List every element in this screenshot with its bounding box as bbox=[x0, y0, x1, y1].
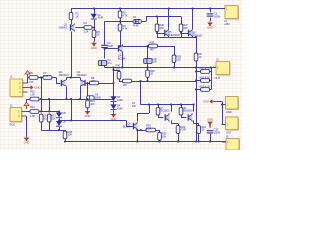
wire lower input bbox=[27, 99, 31, 101]
resistor R6 bbox=[29, 76, 38, 80]
wire bbox=[181, 17, 183, 25]
svg-text:GND: GND bbox=[85, 114, 91, 118]
junction bbox=[119, 8, 121, 10]
junction bbox=[140, 129, 142, 131]
svg-text:2SC5200: 2SC5200 bbox=[160, 109, 170, 113]
wire Q9 emitter bbox=[137, 130, 139, 142]
junction bbox=[64, 141, 66, 143]
wire bbox=[196, 89, 201, 91]
connector J2 input bbox=[10, 108, 22, 122]
junction bbox=[58, 129, 60, 131]
wire J2 pin1 bbox=[27, 111, 31, 113]
wire bbox=[94, 38, 96, 42]
wire bbox=[171, 105, 173, 112]
wire node B bbox=[105, 21, 134, 23]
junction bbox=[70, 120, 72, 122]
junction bbox=[136, 141, 138, 143]
wire bbox=[147, 68, 149, 71]
svg-text:OUT: OUT bbox=[226, 130, 232, 134]
junction bbox=[198, 141, 200, 143]
wire bbox=[49, 122, 51, 130]
junction bbox=[79, 98, 81, 100]
wire bbox=[104, 22, 106, 45]
wire bbox=[66, 78, 68, 81]
junction bbox=[66, 98, 68, 100]
junction bbox=[70, 98, 72, 100]
wire Q1 base bbox=[76, 27, 85, 29]
resistor R21 bbox=[156, 108, 160, 115]
junction bbox=[87, 82, 89, 84]
junction bbox=[173, 67, 175, 69]
svg-text:10K: 10K bbox=[123, 83, 128, 87]
svg-text:R29: R29 bbox=[150, 40, 155, 44]
junction bbox=[119, 45, 121, 47]
wire bbox=[210, 18, 212, 21]
diode D4 bbox=[110, 104, 116, 109]
junction bbox=[156, 16, 158, 18]
junction bbox=[58, 120, 60, 122]
resistor R28 bbox=[146, 70, 150, 77]
junction bbox=[70, 77, 72, 79]
diode D3 bbox=[110, 96, 116, 101]
junction bbox=[192, 8, 194, 10]
junction bbox=[40, 98, 42, 100]
svg-text:2.2K: 2.2K bbox=[84, 30, 89, 34]
transistor Q1 bbox=[0, 0, 1, 1]
wire bbox=[120, 9, 122, 12]
wire bbox=[222, 102, 224, 125]
wire inverting input drop bbox=[87, 83, 89, 100]
svg-text:1.0K: 1.0K bbox=[29, 80, 34, 84]
resistor R8 bbox=[90, 81, 99, 85]
wire bbox=[192, 35, 194, 38]
wire Q2 base bbox=[56, 83, 60, 85]
wire bbox=[156, 130, 160, 132]
resistor R31 bbox=[123, 79, 132, 83]
capacitor C10 bbox=[207, 130, 214, 132]
junction bbox=[221, 104, 223, 106]
svg-text:2SF9014: 2SF9014 bbox=[59, 73, 70, 77]
wire Q2 collector drop bbox=[66, 86, 68, 99]
svg-text:RCA: RCA bbox=[10, 122, 16, 126]
svg-text:4148: 4148 bbox=[133, 24, 139, 28]
power port VP1 bbox=[27, 73, 29, 78]
svg-text:47u: 47u bbox=[107, 61, 112, 65]
junction bbox=[140, 80, 142, 82]
svg-text:0.5R: 0.5R bbox=[181, 128, 186, 132]
wire bbox=[104, 65, 106, 67]
wire bbox=[94, 20, 96, 30]
wire bbox=[71, 9, 73, 13]
capacitor C3 bbox=[101, 44, 108, 46]
connector J3 OUT bbox=[216, 62, 230, 75]
junction bbox=[113, 82, 115, 84]
svg-text:100: 100 bbox=[132, 104, 137, 108]
wire bbox=[194, 123, 199, 125]
wire feedback run bbox=[99, 83, 114, 85]
svg-text:10K: 10K bbox=[162, 134, 167, 138]
ground GND5 bbox=[212, 101, 218, 103]
svg-text:1.0K: 1.0K bbox=[30, 114, 35, 118]
wire Q6 collector bbox=[192, 9, 194, 29]
transistor Q9 bbox=[134, 123, 138, 128]
resistor R17 bbox=[47, 114, 51, 122]
wire bbox=[119, 81, 123, 83]
wire bbox=[171, 123, 178, 125]
svg-text:2SF9014: 2SF9014 bbox=[77, 73, 88, 77]
junction bbox=[40, 77, 42, 79]
resistor R18 bbox=[63, 131, 67, 139]
wire bbox=[222, 104, 226, 106]
svg-text:22K: 22K bbox=[91, 79, 96, 83]
wire output base rail bbox=[141, 104, 194, 106]
transistor Q6 bbox=[189, 30, 193, 35]
wire bbox=[181, 32, 183, 38]
resistor R19 bbox=[146, 128, 156, 132]
wire bbox=[157, 17, 159, 25]
wire bbox=[71, 99, 73, 121]
junction bbox=[180, 104, 182, 106]
transistor Q2 bbox=[62, 80, 66, 85]
wire bbox=[181, 115, 183, 118]
svg-text:GND: GND bbox=[91, 46, 97, 50]
junction bbox=[119, 21, 121, 23]
resistor R27 bbox=[179, 24, 183, 32]
transistor Q1 symbol bbox=[71, 25, 75, 30]
svg-text:100: 100 bbox=[153, 60, 158, 64]
resistor R4 bbox=[84, 26, 92, 30]
wire Q3 collector drop bbox=[80, 86, 82, 99]
svg-text:4148: 4148 bbox=[98, 16, 104, 20]
junction bbox=[147, 80, 149, 82]
diode D1 bbox=[91, 14, 97, 19]
wire bottom -V rail bbox=[65, 141, 226, 143]
wire bbox=[149, 105, 151, 114]
wire bbox=[159, 130, 161, 133]
junction bbox=[113, 69, 115, 71]
capacitor C4 bbox=[98, 61, 106, 66]
wire bbox=[210, 71, 212, 73]
resistor R5 bbox=[92, 30, 96, 38]
ground GND3 bbox=[209, 126, 211, 128]
wire J1 pin1 up bbox=[27, 78, 29, 84]
svg-text:0.5R: 0.5R bbox=[146, 127, 151, 131]
transistor Q3 bbox=[80, 80, 84, 85]
wire bbox=[210, 9, 212, 13]
junction bbox=[157, 104, 159, 106]
svg-text:2N5401: 2N5401 bbox=[58, 25, 67, 29]
svg-text:GND: GND bbox=[203, 100, 209, 104]
svg-text:100N: 100N bbox=[95, 95, 101, 99]
svg-text:100: 100 bbox=[116, 66, 121, 70]
ground GND2 bbox=[87, 109, 89, 111]
wire bbox=[196, 37, 198, 53]
resistor R9 bbox=[194, 53, 198, 61]
wire mid node rail bbox=[105, 67, 197, 69]
wire bbox=[158, 105, 160, 108]
svg-text:1K0: 1K0 bbox=[90, 102, 95, 106]
wire Q3 base to R8 bbox=[86, 83, 90, 85]
transistor Q4 bbox=[119, 46, 123, 51]
wire driver base rail bbox=[146, 16, 181, 18]
wire bbox=[210, 89, 212, 91]
wire Q7 base bbox=[158, 117, 163, 119]
svg-text:R11 4.7K: R11 4.7K bbox=[200, 76, 211, 80]
ground GND8 bbox=[113, 112, 115, 114]
wire bias node rail bbox=[59, 120, 126, 122]
wire Q1 collector to diff pair tail bbox=[71, 31, 73, 77]
connector J1 input bbox=[10, 79, 23, 97]
junction bbox=[195, 80, 197, 82]
resistor R15 bbox=[30, 97, 39, 101]
wire bbox=[94, 99, 113, 101]
junction bbox=[40, 111, 42, 113]
junction bbox=[209, 8, 211, 10]
wire Q9 base bbox=[126, 126, 133, 128]
junction bbox=[147, 45, 149, 47]
wire bbox=[210, 80, 212, 82]
wire bbox=[94, 9, 96, 14]
wire emitter tee bbox=[67, 77, 81, 79]
wire bbox=[119, 70, 121, 72]
svg-text:GND: GND bbox=[24, 141, 30, 145]
wire bbox=[196, 71, 201, 73]
resistor R23 bbox=[176, 126, 180, 134]
wire bias rail bbox=[132, 81, 197, 83]
wire bbox=[26, 99, 28, 102]
svg-text:4148: 4148 bbox=[117, 106, 123, 110]
wire Q4 base bbox=[105, 48, 118, 50]
connector J5 -V bbox=[226, 139, 239, 151]
svg-text:4.7K: 4.7K bbox=[123, 27, 128, 31]
junction bbox=[87, 98, 89, 100]
wire bbox=[59, 127, 61, 130]
wire bottom input rail bbox=[39, 111, 60, 113]
wire bbox=[39, 99, 49, 101]
junction bbox=[93, 8, 95, 10]
junction bbox=[195, 67, 197, 69]
svg-text:1.0K: 1.0K bbox=[30, 93, 35, 97]
junction bbox=[93, 27, 95, 29]
junction bbox=[209, 141, 211, 143]
wire bbox=[65, 130, 67, 131]
wire bbox=[59, 112, 61, 113]
connector J4 VCC bbox=[225, 6, 238, 19]
resistor R3 bbox=[118, 24, 122, 31]
resistor R25 bbox=[172, 55, 176, 63]
wire bbox=[181, 105, 183, 108]
svg-text:R14: R14 bbox=[30, 105, 35, 109]
wire bbox=[114, 70, 120, 72]
resistor R11 bbox=[201, 79, 210, 83]
wire bias diode top bbox=[113, 68, 115, 98]
svg-text:GND: GND bbox=[207, 118, 213, 122]
resistor R30 bbox=[117, 72, 121, 80]
wire bbox=[147, 46, 149, 58]
svg-text:2SD5200: 2SD5200 bbox=[183, 109, 193, 113]
wire Q5 collector bbox=[168, 9, 170, 29]
svg-text:BC546: BC546 bbox=[123, 124, 131, 128]
svg-text:BC546: BC546 bbox=[118, 56, 126, 60]
svg-text:100P: 100P bbox=[107, 44, 113, 48]
wire bbox=[122, 44, 124, 47]
wire lower rail bbox=[49, 99, 87, 101]
svg-text:1K: 1K bbox=[97, 33, 100, 37]
wire bbox=[174, 46, 176, 55]
resistor R2 bbox=[118, 11, 122, 18]
wire bbox=[120, 18, 122, 24]
wire divider vertical bbox=[41, 78, 43, 112]
wire J2 pin2 to gnd bbox=[26, 116, 28, 136]
ground GND1 bbox=[93, 41, 95, 43]
wire bbox=[65, 139, 67, 142]
wire bbox=[92, 27, 94, 29]
junction bbox=[48, 111, 50, 113]
wire bbox=[146, 17, 148, 22]
wire R3 to Q4 collector bbox=[120, 31, 122, 46]
wire bbox=[28, 77, 30, 79]
svg-text:4148: 4148 bbox=[117, 98, 123, 102]
svg-text:4.7K: 4.7K bbox=[123, 14, 128, 18]
svg-text:GND: GND bbox=[226, 110, 232, 114]
svg-text:100: 100 bbox=[159, 26, 164, 30]
wire bbox=[198, 133, 200, 141]
wire bbox=[41, 112, 43, 115]
wire bbox=[171, 120, 173, 123]
wire bbox=[41, 130, 65, 132]
junction bbox=[177, 141, 179, 143]
wire bbox=[198, 124, 200, 126]
wire bbox=[178, 124, 180, 126]
junction bbox=[104, 48, 106, 50]
resistor R29 bbox=[149, 44, 158, 48]
diode D6 bbox=[56, 121, 62, 126]
svg-text:22K: 22K bbox=[51, 116, 56, 120]
junction bbox=[147, 67, 149, 69]
junction bbox=[136, 129, 138, 131]
resistor R12 bbox=[201, 88, 210, 92]
transistor Q8 bbox=[189, 115, 193, 120]
junction bbox=[113, 67, 115, 69]
svg-text:1K: 1K bbox=[150, 72, 153, 76]
wire bbox=[49, 112, 51, 115]
svg-text:R12 4.7K: R12 4.7K bbox=[200, 85, 211, 89]
junction bbox=[180, 32, 182, 34]
capacitor C11 bbox=[144, 59, 152, 64]
wire bbox=[113, 110, 115, 112]
junction bbox=[170, 104, 172, 106]
wire bbox=[104, 48, 106, 58]
wire bbox=[211, 68, 213, 90]
wire bbox=[196, 83, 198, 85]
wire bbox=[41, 122, 43, 130]
diode D5 bbox=[56, 113, 62, 118]
junction bbox=[195, 89, 197, 91]
svg-text:+35V: +35V bbox=[224, 22, 230, 26]
wire Q4 emitter bbox=[122, 52, 124, 67]
resistor R1 body bbox=[69, 12, 73, 19]
power port VP2 bbox=[26, 105, 28, 110]
wire output rail vertical bbox=[196, 61, 198, 142]
wire driver emitter rail bbox=[157, 37, 196, 39]
junction bbox=[159, 141, 161, 143]
junction bbox=[48, 98, 50, 100]
wire Q9 collector bbox=[137, 113, 139, 121]
junction bbox=[156, 32, 158, 34]
wire bbox=[222, 124, 226, 126]
transistor Q5 bbox=[165, 30, 169, 35]
wire top +V rail bbox=[71, 8, 225, 10]
svg-text:2SD5200: 2SD5200 bbox=[192, 34, 203, 38]
wire Q8 base bbox=[181, 117, 186, 119]
wire bbox=[193, 105, 195, 112]
svg-text:R10 4.7K: R10 4.7K bbox=[200, 67, 211, 71]
resistor R7 bbox=[43, 76, 52, 80]
wire bbox=[140, 81, 142, 105]
ground GND6 bbox=[26, 87, 32, 89]
wire bbox=[80, 78, 82, 81]
wire bbox=[217, 101, 222, 103]
wire bbox=[71, 19, 73, 24]
ground GND7 bbox=[26, 136, 28, 138]
svg-text:4K7: 4K7 bbox=[150, 48, 155, 52]
junction bbox=[121, 67, 123, 69]
junction bbox=[58, 111, 60, 113]
wire bbox=[119, 79, 121, 81]
junction bbox=[148, 104, 150, 106]
svg-text:1.0K: 1.0K bbox=[44, 74, 49, 78]
wire bbox=[113, 102, 115, 105]
junction bbox=[195, 141, 197, 143]
wire bbox=[126, 121, 128, 127]
resistor R14 bbox=[30, 110, 39, 114]
wire bbox=[159, 140, 161, 141]
diode D2 bbox=[133, 20, 141, 24]
junction bbox=[195, 36, 197, 38]
connector J6 bbox=[226, 97, 239, 110]
svg-text:GND: GND bbox=[207, 26, 213, 30]
wire divider tap bbox=[38, 77, 43, 79]
capacitor C1 bbox=[207, 13, 214, 15]
resistor R22 bbox=[179, 108, 183, 115]
svg-text:100: 100 bbox=[183, 26, 188, 30]
capacitor C8 bbox=[87, 96, 95, 100]
svg-text:10K: 10K bbox=[68, 133, 73, 137]
svg-text:GND: GND bbox=[35, 86, 41, 90]
wire Q5 base bbox=[157, 33, 165, 35]
junction bbox=[210, 67, 212, 69]
wire bbox=[178, 133, 180, 141]
svg-text:OUT: OUT bbox=[215, 76, 221, 80]
wire bbox=[158, 115, 160, 118]
wire bbox=[56, 78, 58, 84]
wire bbox=[147, 63, 149, 67]
junction bbox=[195, 71, 197, 73]
wire bbox=[168, 35, 170, 38]
svg-text:MJE15030: MJE15030 bbox=[168, 33, 180, 37]
junction bbox=[113, 98, 115, 100]
wire bbox=[210, 134, 212, 142]
wire bbox=[147, 77, 149, 81]
resistor R20 bbox=[158, 133, 162, 141]
resistor R24 bbox=[197, 126, 201, 134]
wire to output connector bbox=[196, 67, 216, 69]
wire bbox=[87, 108, 89, 110]
resistor R13 bbox=[86, 100, 90, 108]
svg-text:100N: 100N bbox=[214, 130, 220, 134]
transistor Q7 bbox=[166, 115, 170, 120]
wire bbox=[157, 32, 159, 38]
